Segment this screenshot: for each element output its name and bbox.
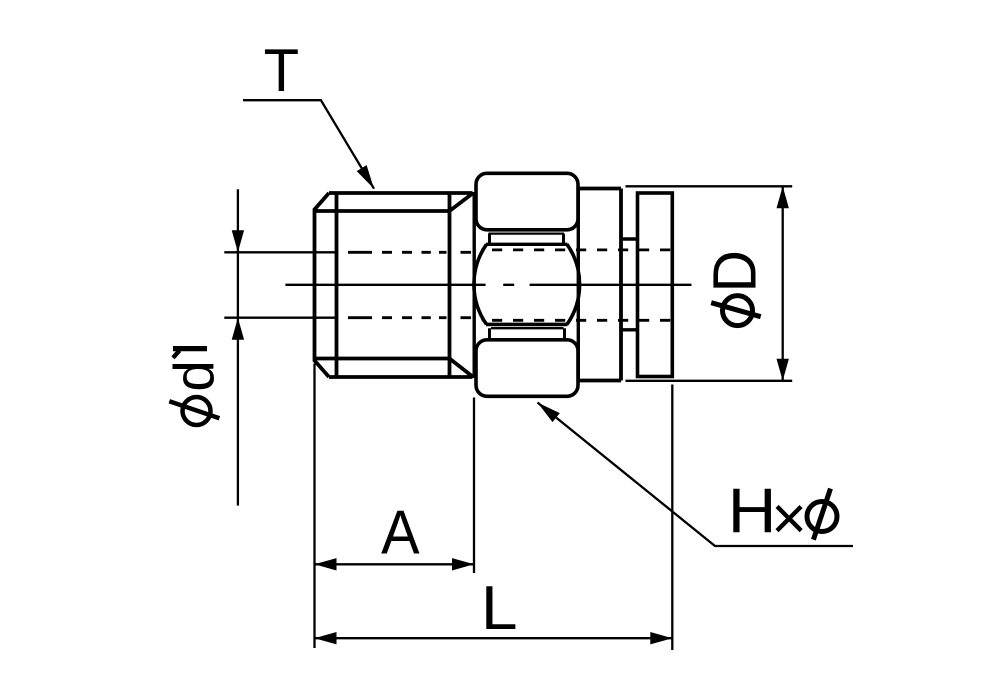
body cylinder xyxy=(578,189,621,381)
arrow phi-D bottom (down) xyxy=(777,359,789,381)
arrow phi-D top (up) xyxy=(777,186,789,208)
label HxPhi xyxy=(728,475,837,552)
hex nut top waist lines xyxy=(486,234,568,245)
svg-text:×: × xyxy=(771,484,807,552)
wire centerline xyxy=(285,284,691,286)
body-collar step lines xyxy=(621,239,638,330)
arrow A right xyxy=(452,558,474,570)
leader line T xyxy=(243,100,374,189)
svg-text:d: d xyxy=(163,360,226,391)
hex nut silhouette edges xyxy=(474,189,578,381)
arrow leader HxPhi xyxy=(538,403,560,423)
arrow leader T xyxy=(357,165,374,189)
hex nut bottom waist lines xyxy=(490,328,565,339)
arrow phi-d1 bottom (up) xyxy=(232,318,244,340)
dimension A line xyxy=(315,563,475,565)
hex nut bottom face xyxy=(476,340,578,397)
svg-text:H: H xyxy=(728,475,777,545)
svg-text:T: T xyxy=(264,36,299,104)
bore dashed lines xyxy=(481,250,672,320)
arrow L left xyxy=(315,632,337,644)
arrow L right xyxy=(650,632,672,644)
dimension L extension line right xyxy=(671,385,673,651)
dimension A extension lines xyxy=(315,364,475,649)
dimension phi-d1 line xyxy=(237,189,239,505)
thread root dashed lines xyxy=(348,252,471,317)
dimension phi-D extension lines xyxy=(626,186,793,380)
hex nut middle face (barrel) xyxy=(474,244,580,324)
release collar xyxy=(638,193,673,377)
arrow A left xyxy=(315,558,337,570)
dimension phi-d1 extension lines xyxy=(224,252,338,317)
dimension phi-D line xyxy=(782,186,784,380)
dimension L line xyxy=(315,637,673,639)
hex nut top face xyxy=(476,173,578,230)
svg-text:L: L xyxy=(481,572,518,642)
thread outline (male thread, left) xyxy=(315,193,473,377)
svg-text:D: D xyxy=(700,250,768,292)
arrow phi-d1 top (down) xyxy=(232,230,244,252)
svg-text:A: A xyxy=(381,498,420,567)
leader line HxPhi xyxy=(538,403,854,547)
label phi-d1 (rotated) xyxy=(163,349,226,425)
arrowheads xyxy=(232,165,789,644)
label phi-D (rotated) xyxy=(700,250,768,326)
